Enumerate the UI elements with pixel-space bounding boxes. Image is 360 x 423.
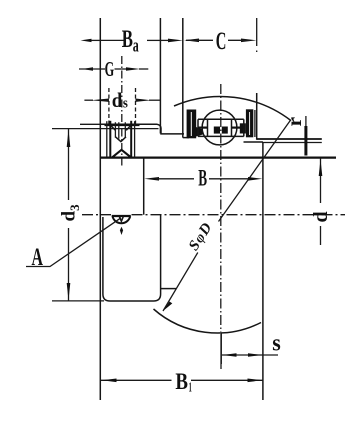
dimension d3 x=68.5 xyxy=(59,129,83,301)
extension line left face (x=100.3 full height) xyxy=(99,18,101,400)
r leader / SphiD leader diagonal xyxy=(163,120,291,311)
svg-text:G: G xyxy=(105,57,115,81)
svg-text:d: d xyxy=(112,88,123,112)
centerline bearing vertical (dash-dot x=220.8) xyxy=(220,84,222,332)
sleeve external rounded rect xyxy=(103,215,161,301)
right seal xyxy=(240,123,246,133)
ball xyxy=(202,110,237,145)
svg-text:C: C xyxy=(216,28,227,55)
set screw: socket bottom V xyxy=(115,137,126,142)
set screw: point chevron xyxy=(112,150,130,157)
dimension d x=320.5 xyxy=(310,159,332,246)
bore top line y=157.6 xyxy=(100,157,336,159)
outer ring left face xyxy=(182,102,184,138)
screw hole top edge thick xyxy=(105,124,140,126)
svg-text:d: d xyxy=(310,211,332,222)
d3 top extension line y=128.6 xyxy=(52,128,159,130)
dimension C row y=40.3 xyxy=(184,28,256,55)
left seal xyxy=(187,110,197,139)
dimension ds row y=100.2 xyxy=(84,88,160,112)
inner ring top right y=142 xyxy=(244,141,263,143)
SphiD arrowhead xyxy=(163,302,172,312)
centerline set screw (dash-dot x=121.8) xyxy=(121,56,123,168)
dimension s y=355 xyxy=(221,330,280,364)
svg-text:1: 1 xyxy=(189,381,192,396)
svg-text:r: r xyxy=(282,117,306,127)
svg-text:s: s xyxy=(272,330,281,356)
set screw: socket chamfers xyxy=(111,126,131,131)
svg-text:B: B xyxy=(122,26,133,53)
extension line outer ring right face top (x=256.7) xyxy=(256,18,258,52)
svg-text:A: A xyxy=(32,244,43,271)
dimension B1 y=380.3 xyxy=(101,369,263,395)
extension line step (x=160.4) xyxy=(159,18,161,134)
svg-text:B: B xyxy=(175,369,188,394)
inner bore edge line x=143.7 xyxy=(143,158,145,215)
set screw: socket lines xyxy=(115,122,125,138)
inner ring top surface left y=124.3 xyxy=(100,123,157,125)
r arrow vertical xyxy=(305,116,307,155)
outer ring right face (section) xyxy=(256,93,258,140)
sleeve step silhouette y=288.6 xyxy=(161,288,176,290)
set screw: thread lines xyxy=(106,121,108,157)
dimension B row y=178.8 xyxy=(144,165,262,190)
rivet xyxy=(214,127,220,134)
axis centerline horizontal (dash-dot y=214.7) xyxy=(82,214,111,216)
step down to seal surface xyxy=(157,124,184,134)
extension line outer ring left face (x=182.8) xyxy=(182,18,184,103)
thread extension dashed lines xyxy=(108,88,110,125)
outer ring sphere bottom arc xyxy=(154,309,262,333)
svg-text:s: s xyxy=(123,95,128,111)
dimension Ba row y=40.4 xyxy=(81,26,183,56)
outer ring sphere top arc xyxy=(174,96,291,120)
extension line inner ring right face (x=262.9) xyxy=(262,142,264,400)
r extension double lines xyxy=(257,138,322,140)
screw hole external view dome xyxy=(112,216,131,235)
d3 bottom extension y=300.9 xyxy=(52,300,104,302)
svg-text:B: B xyxy=(198,165,207,190)
cage box xyxy=(198,119,244,136)
overshoot stub left of face xyxy=(80,123,100,125)
dimension G row y=69 xyxy=(79,57,148,81)
set screw: hole walls xyxy=(109,121,111,157)
leader A xyxy=(26,218,121,267)
svg-text:a: a xyxy=(133,36,139,57)
